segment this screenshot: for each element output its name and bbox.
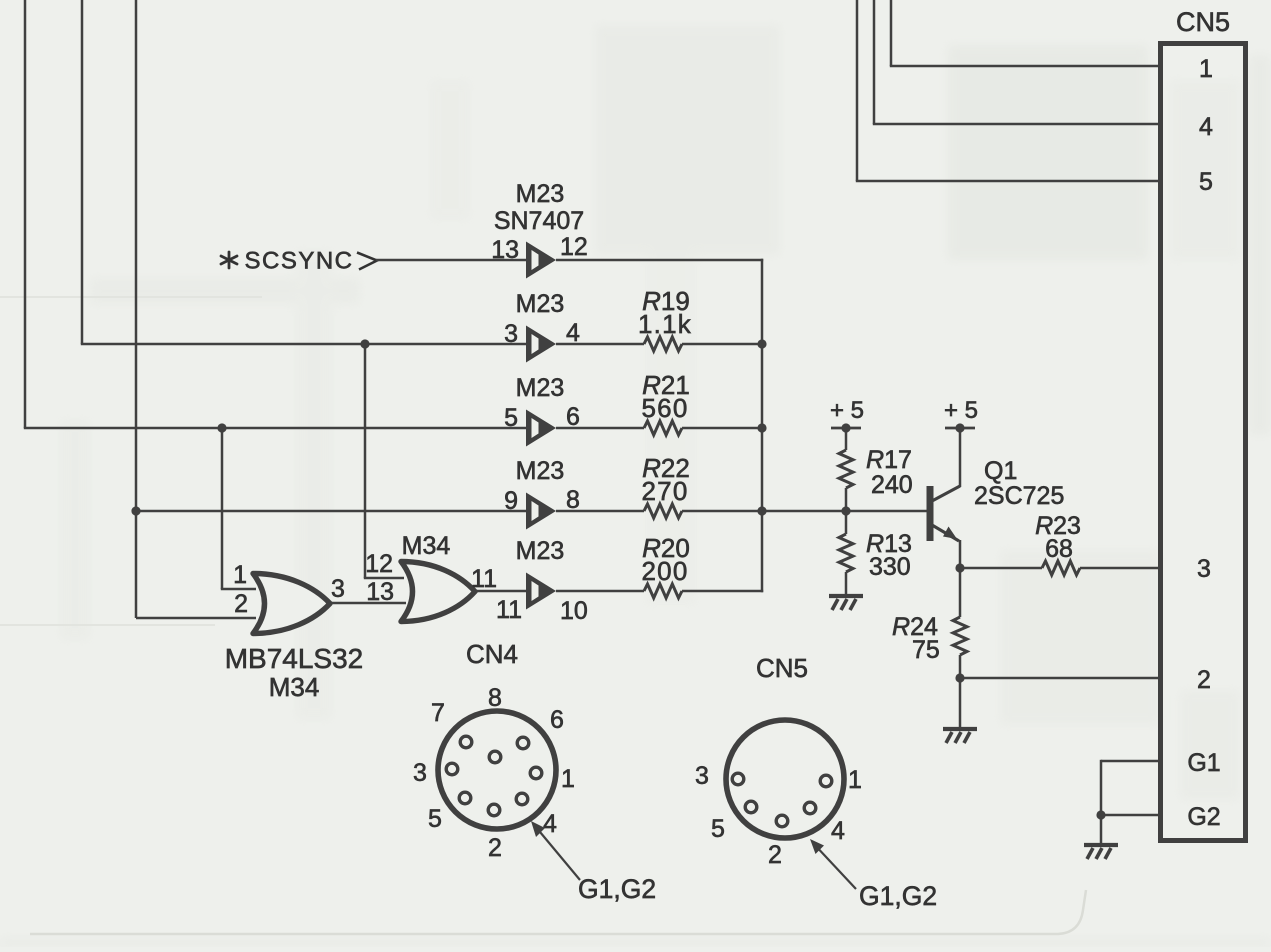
wire: R13 to ground xyxy=(845,572,848,596)
wire: +5 to collector xyxy=(959,428,962,487)
wire: row2 horizontal to buffer 3-4 xyxy=(81,343,526,346)
wire: node to R13 xyxy=(845,511,848,534)
svg-text:M23: M23 xyxy=(516,537,565,565)
svg-text:2: 2 xyxy=(1197,666,1211,694)
wire: right bus vertical xyxy=(761,259,764,592)
svg-text:9: 9 xyxy=(504,487,518,515)
svg-text:3: 3 xyxy=(413,759,427,787)
wire: OR2 input-12 horizontal xyxy=(364,577,404,580)
svg-text:75: 75 xyxy=(912,636,940,664)
buffer U-M23d pins 9/8 xyxy=(526,493,556,530)
wire: input A vertical xyxy=(24,0,27,428)
svg-text:3: 3 xyxy=(504,320,518,348)
svg-text:SN7407: SN7407 xyxy=(494,207,584,235)
node: bus/row4 xyxy=(757,506,766,515)
svg-text:8: 8 xyxy=(488,684,502,712)
wire: vertical to pin 5 xyxy=(856,0,859,181)
svg-text:11: 11 xyxy=(471,565,497,593)
wire: R21 to bus xyxy=(682,427,763,430)
wire: emitter to node xyxy=(959,540,962,568)
transistor Q1 emitter arrow xyxy=(943,527,957,540)
svg-text:M34: M34 xyxy=(269,672,320,702)
wire: buffer out row2 xyxy=(556,343,644,346)
node: R24 bottom junction xyxy=(955,673,964,682)
connector CN4 (DIN socket) xyxy=(438,711,556,829)
svg-text:6: 6 xyxy=(550,706,564,734)
resistor R22 270 xyxy=(644,504,682,518)
connector CN5 (DIN socket) xyxy=(726,720,844,838)
svg-text:4: 4 xyxy=(831,817,845,845)
wire: SCSYNC to buffer 13-12 xyxy=(376,259,526,262)
wire: OR2 output to buffer 11 xyxy=(475,590,526,593)
wire: buffer out row3 xyxy=(556,427,644,430)
svg-text:1: 1 xyxy=(848,766,862,794)
transistor Q1 emitter lead xyxy=(932,525,959,541)
svg-text:12: 12 xyxy=(560,233,588,261)
connector CN5 (box) xyxy=(1161,44,1246,841)
wire: horizontal to CN5 pin 1 xyxy=(890,65,1160,68)
CN4 pin hole 5 xyxy=(530,767,542,779)
wire: node to ground xyxy=(959,678,962,729)
svg-text:13: 13 xyxy=(491,236,519,264)
wire: R23 to CN5 pin3 xyxy=(1080,567,1160,570)
svg-text:200: 200 xyxy=(642,556,689,586)
wire: CN5 G2 xyxy=(1101,814,1160,817)
svg-text:5: 5 xyxy=(504,404,518,432)
CN4 pin hole 1 xyxy=(460,736,472,748)
arrow: CN4 shell to G1,G2 xyxy=(535,826,580,880)
svg-text:+ 5: + 5 xyxy=(944,397,978,424)
node: R17/R13/base xyxy=(841,506,850,515)
resistor R19 1.1k xyxy=(644,337,682,351)
wire: horizontal to CN5 pin 4 xyxy=(873,123,1160,126)
wire: vertical D from row3 to OR1 input-1 xyxy=(221,428,224,589)
CN4 pin hole 7 xyxy=(516,793,528,805)
wire: vertical to pin 1 xyxy=(890,0,893,66)
svg-text:13: 13 xyxy=(366,578,394,606)
svg-text:3: 3 xyxy=(1197,555,1211,583)
resistor R17 240 xyxy=(839,450,853,488)
svg-text:M23: M23 xyxy=(516,457,565,485)
wire: G1 down to G2 node xyxy=(1100,760,1103,815)
wire: R24 to node xyxy=(959,655,962,678)
wire: buffer 12 output to bus xyxy=(556,259,763,262)
wire: OR1 input-2 horizontal xyxy=(136,617,256,620)
or-gate U-M34b xyxy=(401,562,475,622)
svg-text:MB74LS32: MB74LS32 xyxy=(225,643,364,674)
CN5 socket pin hole 5 xyxy=(776,815,788,827)
wire: row4 bus to Q1 base xyxy=(762,510,927,513)
svg-text:SCSYNC: SCSYNC xyxy=(244,248,353,275)
wire: buffer out row5 xyxy=(556,590,644,593)
node: bus/row2 xyxy=(757,339,766,348)
svg-text:CN5: CN5 xyxy=(756,653,808,683)
power +5 (R17) xyxy=(830,397,864,433)
wire: emitter node down to R24 xyxy=(959,568,962,617)
svg-text:1: 1 xyxy=(1199,55,1213,83)
wire: row4 horizontal to buffer 9-8 xyxy=(136,510,526,513)
svg-text:G1: G1 xyxy=(1187,749,1220,777)
svg-text:M34: M34 xyxy=(402,532,451,560)
resistor R13 330 xyxy=(839,534,853,572)
CN4 pin hole 2 xyxy=(517,737,529,749)
svg-text:1: 1 xyxy=(233,561,247,589)
transistor Q1 base bar xyxy=(927,486,934,541)
svg-text:G1,G2: G1,G2 xyxy=(578,874,656,904)
svg-text:3: 3 xyxy=(331,575,345,603)
svg-text:G1,G2: G1,G2 xyxy=(859,881,937,911)
svg-text:CN4: CN4 xyxy=(466,639,518,669)
wire: R19 to bus xyxy=(682,343,763,346)
buffer U-M23e pins 11/10 xyxy=(526,573,556,610)
or-gate U-M34a (MB74LS32) xyxy=(253,574,330,634)
wire: vertical E from row2 to OR2 input-12 xyxy=(364,344,367,578)
CN5 socket pin hole 3 xyxy=(745,801,757,813)
ground (G1/G2) xyxy=(1084,845,1118,859)
svg-text:+ 5: + 5 xyxy=(830,397,864,424)
arrow: CN5 shell to G1,G2 xyxy=(813,843,856,889)
svg-text:68: 68 xyxy=(1045,535,1073,563)
node: junction D/row3 xyxy=(217,423,226,432)
resistor R24 75 xyxy=(953,617,967,655)
svg-text:240: 240 xyxy=(871,471,913,499)
svg-text:1: 1 xyxy=(561,765,575,793)
wire: OR1 input-1 horizontal xyxy=(221,588,256,591)
wire: R17 to node xyxy=(845,488,848,511)
buffer U-M23c pins 5/6 xyxy=(526,410,556,447)
transistor Q1 collector lead xyxy=(932,486,960,501)
svg-text:CN5: CN5 xyxy=(1176,7,1230,37)
svg-text:2: 2 xyxy=(488,834,502,862)
wire: R22 to bus xyxy=(682,510,763,513)
svg-text:10: 10 xyxy=(560,597,588,625)
wire: buffer out row4 xyxy=(556,510,644,513)
svg-text:12: 12 xyxy=(365,550,393,578)
svg-text:7: 7 xyxy=(431,699,445,727)
wire: OR1 output to OR2 input-13 xyxy=(328,602,406,605)
node: bus/row3 xyxy=(757,423,766,432)
wire: CN5 G1 xyxy=(1101,760,1160,763)
svg-text:560: 560 xyxy=(642,393,689,423)
svg-text:M23: M23 xyxy=(516,180,565,208)
wire: R20 to bus xyxy=(682,590,763,593)
svg-text:330: 330 xyxy=(869,553,911,581)
ground (R13) xyxy=(829,596,863,610)
svg-text:M23: M23 xyxy=(516,374,565,402)
CN4 pin hole 6 xyxy=(459,792,471,804)
svg-text:Q1: Q1 xyxy=(984,457,1017,485)
wire: input C vertical xyxy=(135,0,138,618)
input chevron xyxy=(357,253,377,270)
buffer U-M23a pins 13/12 (SN7407) xyxy=(526,242,556,279)
svg-text:R17: R17 xyxy=(866,446,912,474)
buffer U-M23b pins 3/4 xyxy=(526,326,556,363)
CN5 socket pin hole 2 xyxy=(820,775,832,787)
CN4 pin hole 3 xyxy=(489,751,501,763)
wire: +5 to R17 xyxy=(845,428,848,450)
svg-text:4: 4 xyxy=(1199,113,1213,141)
svg-text:5: 5 xyxy=(1199,168,1213,196)
resistor R23 68 xyxy=(1042,561,1080,575)
svg-text:2: 2 xyxy=(768,841,782,869)
resistor R21 560 xyxy=(644,421,682,435)
svg-text:11: 11 xyxy=(496,596,522,624)
svg-text:270: 270 xyxy=(642,476,689,506)
power +5 (Q1 collector) xyxy=(944,397,978,433)
resistor R20 200 xyxy=(644,584,682,598)
CN4 pin hole 4 xyxy=(446,763,458,775)
node: junction E/row2 xyxy=(360,339,369,348)
svg-text:4: 4 xyxy=(543,810,557,838)
wire: vertical to pin 4 xyxy=(873,0,876,124)
wire: horizontal to CN5 pin 5 xyxy=(856,180,1160,183)
wire: emitter node to R23 xyxy=(960,567,1042,570)
wire: junction to ground xyxy=(1100,815,1103,845)
svg-text:5: 5 xyxy=(711,815,725,843)
svg-text:2SC725: 2SC725 xyxy=(974,482,1064,510)
CN5 socket pin hole 1 xyxy=(732,773,744,785)
wire: input B vertical xyxy=(81,0,84,344)
CN5 socket pin hole 4 xyxy=(804,802,816,814)
wire: node to CN5 pin2 xyxy=(960,677,1160,680)
node: G1/G2 junction xyxy=(1096,810,1105,819)
svg-text:2: 2 xyxy=(234,590,248,618)
svg-text:M23: M23 xyxy=(516,290,565,318)
node: emitter junction xyxy=(955,563,964,572)
svg-text:5: 5 xyxy=(428,805,442,833)
ground (R24) xyxy=(943,729,977,743)
svg-text:3: 3 xyxy=(695,762,709,790)
node: junction C/row4 xyxy=(131,506,140,515)
svg-text:1.1k: 1.1k xyxy=(638,309,692,339)
CN4 pin hole 8 xyxy=(488,804,500,816)
wire: row3 horizontal to buffer 5-6 xyxy=(24,427,526,430)
svg-text:G2: G2 xyxy=(1187,803,1220,831)
